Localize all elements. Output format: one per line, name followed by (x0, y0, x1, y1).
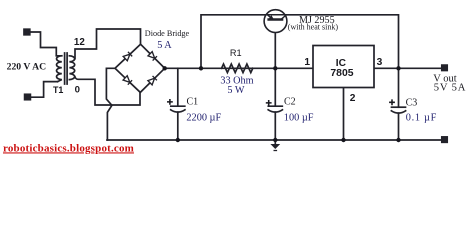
svg-text:100 µF: 100 µF (284, 112, 314, 123)
svg-text:(with heat sink): (with heat sink) (288, 22, 339, 31)
svg-text:C1: C1 (187, 97, 199, 108)
svg-text:2: 2 (350, 93, 356, 104)
svg-text:R1: R1 (230, 48, 242, 58)
svg-text:C3: C3 (406, 98, 418, 109)
svg-text:T1: T1 (53, 85, 63, 95)
svg-text:0.1 µF: 0.1 µF (406, 112, 437, 123)
svg-text:7805: 7805 (330, 68, 353, 79)
svg-text:roboticbasics.blogspot.com: roboticbasics.blogspot.com (3, 142, 134, 154)
svg-text:2200 µF: 2200 µF (186, 113, 221, 124)
svg-text:C2: C2 (284, 97, 296, 108)
svg-text:220 V AC: 220 V AC (7, 62, 46, 73)
svg-text:1: 1 (304, 57, 310, 68)
svg-text:5V 5A: 5V 5A (434, 83, 466, 94)
svg-text:12: 12 (74, 37, 85, 48)
svg-text:0: 0 (75, 85, 80, 96)
svg-text:Diode Bridge: Diode Bridge (145, 29, 190, 38)
svg-text:3: 3 (377, 57, 383, 68)
svg-text:5 A: 5 A (157, 40, 172, 51)
svg-text:5 W: 5 W (227, 85, 244, 96)
